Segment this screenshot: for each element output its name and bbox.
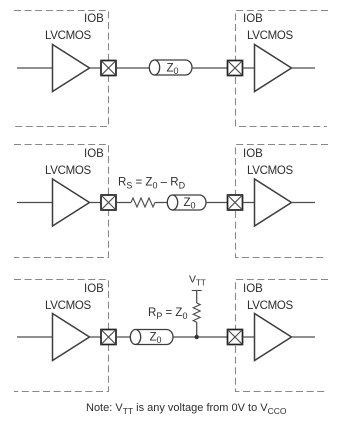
wire: driver to pad, row 3 xyxy=(90,336,102,338)
wire: pad to receiver, row 2 xyxy=(243,202,255,204)
wire: driver input, row 1 xyxy=(17,67,53,69)
IOB pad (receiver, row 3) xyxy=(228,330,243,345)
IOB pad (receiver, row 2) xyxy=(228,195,243,210)
IOB dashed box (driver, row 2) xyxy=(14,145,109,258)
transmission line Z0 cylinder, row 2 xyxy=(167,195,206,210)
svg-text:IOB: IOB xyxy=(84,283,104,295)
IOB pad (driver, row 2) xyxy=(101,195,116,210)
IOB dashed box (receiver, row 3) xyxy=(236,280,329,392)
wire: VTT bar to resistor RP xyxy=(196,291,198,304)
wire: receiver output, row 3 xyxy=(292,336,316,338)
LVCMOS receiver buffer, row 3 xyxy=(255,314,292,361)
wire: receiver output, row 2 xyxy=(292,202,316,204)
wire: driver to pad, row 2 xyxy=(90,202,102,204)
svg-text:LVCMOS: LVCMOS xyxy=(247,30,294,42)
wire: driver input, row 2 xyxy=(17,202,53,204)
svg-text:IOB: IOB xyxy=(84,13,104,25)
svg-text:RP = Z0: RP = Z0 xyxy=(148,307,187,321)
IOB dashed box (driver, row 1) xyxy=(14,11,109,127)
IOB dashed box (receiver, row 2) xyxy=(236,145,329,258)
wire: pad to receiver, row 3 xyxy=(243,336,255,338)
wire: driver to pad, row 1 xyxy=(90,67,102,69)
wire: pad to transmission line, row 1 xyxy=(116,67,150,69)
wire: pad to transmission line, row 3 xyxy=(116,336,131,338)
wire: transmission line to pad, row 1 xyxy=(192,67,227,69)
wire: pad to series resistor, row 2 xyxy=(116,202,131,204)
svg-text:Note: VTT is any voltage from: Note: VTT is any voltage from 0V to VCCO xyxy=(86,402,287,416)
LVCMOS receiver buffer, row 1 xyxy=(255,45,292,92)
parallel resistor RP (vertical) xyxy=(193,303,200,322)
wire: transmission line to pad, row 2 xyxy=(206,202,227,204)
svg-text:IOB: IOB xyxy=(243,148,263,160)
svg-text:LVCMOS: LVCMOS xyxy=(247,300,294,312)
IOB dashed box (driver, row 3) xyxy=(14,280,109,392)
wire: receiver output, row 1 xyxy=(292,67,316,69)
IOB pad (driver, row 3) xyxy=(101,330,116,345)
transmission line Z0 cylinder, row 1 xyxy=(149,60,192,75)
wire: resistor to transmission line, row 2 xyxy=(155,202,168,204)
junction node dot xyxy=(195,335,199,339)
svg-text:LVCMOS: LVCMOS xyxy=(45,30,92,42)
LVCMOS driver buffer, row 3 xyxy=(53,314,90,361)
wire: driver input, row 3 xyxy=(17,336,53,338)
LVCMOS receiver buffer, row 2 xyxy=(255,179,292,226)
VTT supply rail bar xyxy=(192,290,202,292)
svg-text:IOB: IOB xyxy=(243,283,263,295)
wire: pad to receiver, row 1 xyxy=(243,67,255,69)
LVCMOS driver buffer, row 1 xyxy=(53,45,90,92)
wire: transmission line to pad with junction, row 3 xyxy=(173,336,227,338)
IOB pad (receiver, row 1) xyxy=(228,61,243,76)
IOB dashed box (receiver, row 1) xyxy=(236,11,329,127)
transmission line Z0 cylinder, row 3 xyxy=(130,330,173,345)
series resistor RS, row 2 xyxy=(131,198,155,207)
IOB pad (driver, row 1) xyxy=(101,61,116,76)
svg-text:IOB: IOB xyxy=(243,13,263,25)
svg-text:IOB: IOB xyxy=(84,148,104,160)
svg-text:LVCMOS: LVCMOS xyxy=(45,300,92,312)
svg-text:LVCMOS: LVCMOS xyxy=(45,165,92,177)
wire: resistor RP to junction xyxy=(196,322,198,337)
svg-text:LVCMOS: LVCMOS xyxy=(247,165,294,177)
LVCMOS driver buffer, row 2 xyxy=(53,179,90,226)
